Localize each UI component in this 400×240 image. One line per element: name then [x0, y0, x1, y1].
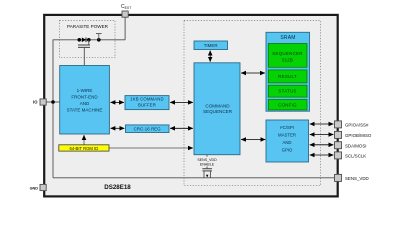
- arrow 1-wire to CRC-16 reg: [111, 127, 125, 129]
- svg-text:GND: GND: [30, 186, 39, 190]
- svg-text:STATE MACHINE: STATE MACHINE: [67, 107, 103, 112]
- pin GND: [40, 184, 46, 190]
- arrow timer to sequencer: [209, 51, 211, 62]
- pin SENS_VDD: [335, 174, 342, 181]
- pin GPIOA/SS#: [335, 121, 342, 128]
- svg-text:SCL/SCLK: SCL/SCLK: [345, 154, 366, 159]
- svg-text:MASTER: MASTER: [278, 133, 296, 138]
- svg-text:EXT: EXT: [125, 6, 132, 10]
- svg-text:COMMAND: COMMAND: [205, 103, 230, 108]
- arrow I2C/SPI to SDA pin: [310, 144, 334, 146]
- svg-text:FRONT-END: FRONT-END: [71, 95, 98, 100]
- svg-text:512B: 512B: [282, 58, 293, 63]
- pin CEXT: [122, 11, 128, 17]
- svg-text:SEQUENCER: SEQUENCER: [272, 51, 303, 56]
- pin SDA/MOSI: [335, 142, 342, 149]
- pin IO: [40, 99, 46, 105]
- sram SEQUENCER (512B): [268, 44, 307, 68]
- arrow sequencer to SRAM: [241, 72, 265, 74]
- block CRC-16 REG: [126, 125, 170, 133]
- internal supply tap: [98, 34, 100, 40]
- node dot 1 parasite rail: [78, 38, 82, 42]
- svg-text:64-BIT ROM ID: 64-BIT ROM ID: [70, 146, 99, 151]
- arrow CRC-16 reg to sequencer: [170, 127, 193, 129]
- pin GPIOB/MISO: [335, 131, 342, 138]
- svg-text:ENABLE: ENABLE: [200, 162, 215, 166]
- chip boundary DS28E18: [44, 15, 338, 197]
- block 1-WIRE FRONT-END AND STATE MACHINE: [60, 66, 110, 135]
- block COMMAND SEQUENCER: [194, 63, 240, 155]
- svg-text:BUFFER: BUFFER: [138, 103, 156, 108]
- pin SCL/SCLK: [335, 152, 342, 159]
- node dot 2 parasite rail: [87, 38, 91, 42]
- svg-text:DS28E18: DS28E18: [104, 184, 131, 191]
- svg-text:SEQUENCER: SEQUENCER: [203, 109, 233, 114]
- transistor M1 parasite power: [88, 40, 90, 45]
- svg-text:I²C/SPI: I²C/SPI: [280, 125, 294, 130]
- svg-text:RESULT: RESULT: [278, 74, 297, 79]
- block 1KB COMMAND BUFFER: [125, 96, 169, 110]
- sram STATUS: [268, 85, 307, 97]
- sram CONFIG: [268, 100, 307, 110]
- svg-text:SENS_VDD: SENS_VDD: [345, 176, 369, 181]
- block TIMER: [194, 41, 228, 50]
- node junction dot on IO line: [51, 100, 55, 104]
- arrow command buffer to sequencer: [170, 101, 193, 103]
- svg-text:GPIO: GPIO: [282, 148, 293, 153]
- svg-text:STATUS: STATUS: [278, 89, 296, 94]
- wire bottom rail to SENS_VDD: [53, 177, 335, 179]
- svg-text:1-WIRE: 1-WIRE: [77, 88, 93, 93]
- wire left vertical to bottom rail: [52, 102, 54, 178]
- wire IO to 1-wire block: [46, 101, 60, 103]
- wire parasite tap vertical: [53, 40, 125, 102]
- transistor M2 SENS_VDD switch: [206, 155, 208, 157]
- block I2C/SPI MASTER AND GPIO: [266, 120, 309, 162]
- arrow ROM ID up to 1-wire: [83, 135, 85, 145]
- svg-text:GPIOB/MISO: GPIOB/MISO: [345, 133, 372, 138]
- arrow I2C/SPI to SCL pin: [310, 154, 334, 156]
- svg-text:SENS_VDD: SENS_VDD: [197, 158, 217, 162]
- svg-text:PARASITE POWER: PARASITE POWER: [67, 24, 109, 29]
- wire CEXT drop: [124, 17, 126, 40]
- arrow I2C/SPI to GPIOA pin: [310, 123, 334, 125]
- svg-text:TIMER: TIMER: [204, 43, 219, 48]
- svg-text:AND: AND: [80, 101, 90, 106]
- block 64-BIT ROM ID: [59, 145, 109, 151]
- svg-text:GPIOA/SS#: GPIOA/SS#: [345, 123, 369, 128]
- svg-text:AND: AND: [282, 140, 291, 145]
- node dot 3 parasite rail: [97, 38, 101, 42]
- sram RESULT: [268, 70, 307, 83]
- arrow sequencer to I2C/SPI: [241, 139, 265, 141]
- wire ROM ID to sequencer: [109, 147, 193, 149]
- block SRAM container: [266, 32, 310, 111]
- arrow 1-wire to command buffer: [111, 101, 124, 103]
- svg-text:CRC-16 REG: CRC-16 REG: [134, 127, 162, 132]
- svg-text:SDA/MOSI: SDA/MOSI: [345, 143, 366, 148]
- digital core dashed box: [184, 20, 321, 185]
- svg-text:IO: IO: [33, 100, 38, 105]
- svg-text:1KB COMMAND: 1KB COMMAND: [130, 96, 164, 101]
- arrow I2C/SPI to GPIOB pin: [310, 134, 334, 136]
- wire parasite power to 1-wire block: [83, 47, 85, 65]
- svg-text:SRAM: SRAM: [280, 35, 295, 41]
- svg-text:CONFIG: CONFIG: [278, 102, 297, 107]
- parasite power dashed box: [60, 20, 116, 57]
- diode D1: [82, 38, 86, 43]
